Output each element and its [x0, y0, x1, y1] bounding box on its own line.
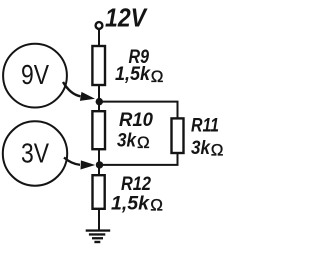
svg-text:Ω: Ω [137, 133, 150, 152]
resistor R10 [92, 111, 105, 149]
svg-text:R12: R12 [121, 173, 151, 195]
supply terminal +12V [96, 22, 103, 29]
svg-text:R10: R10 [119, 109, 153, 131]
svg-text:3k: 3k [117, 130, 137, 151]
svg-text:3k: 3k [191, 138, 211, 159]
svg-text:R11: R11 [191, 115, 219, 137]
resistor R12 [93, 175, 105, 209]
resistor R9 [92, 46, 105, 85]
annotation circle 9V [3, 44, 67, 108]
arrowhead: 3V pointer [81, 160, 96, 169]
node A (R9/R10/R11 junction) [96, 98, 103, 105]
svg-text:3V: 3V [21, 137, 50, 168]
wire: R9 bottom through node A to R10 top [98, 85, 100, 112]
wire: R12 bottom to ground [98, 209, 100, 231]
svg-text:Ω: Ω [211, 141, 224, 160]
svg-text:12V: 12V [105, 2, 148, 32]
ground symbol [86, 229, 111, 243]
svg-text:1,5k: 1,5k [111, 193, 150, 214]
arrowhead: 9V pointer [80, 92, 95, 101]
arrow curve: 3V annotation to node B [64, 158, 80, 165]
arrow curve: 9V annotation to node A [63, 82, 81, 96]
svg-text:Ω: Ω [150, 196, 163, 215]
annotation circle 3V [3, 121, 67, 185]
wire: R11 bottom to node B (lower parallel link) [99, 153, 178, 165]
wire: R10 bottom through node B to R12 top [98, 149, 100, 176]
svg-text:Ω: Ω [151, 67, 164, 86]
wire: node A to R11 top (upper parallel link) [99, 102, 178, 119]
resistor R11 [172, 118, 184, 153]
node B (R10/R11/R12 junction) [96, 161, 103, 168]
wire: terminal to R9 top [98, 29, 100, 46]
svg-text:1,5k: 1,5k [115, 64, 151, 85]
svg-text:9V: 9V [21, 59, 50, 90]
